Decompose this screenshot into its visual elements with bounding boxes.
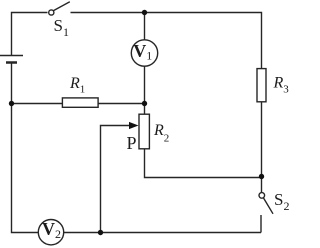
node E junction dot xyxy=(98,230,103,235)
battery B1 short plate (-) xyxy=(6,61,17,64)
rheostat R2 wiper wire xyxy=(101,126,130,233)
voltmeter V2 xyxy=(38,220,63,245)
voltmeter V1 xyxy=(131,40,157,66)
switch S2 xyxy=(259,193,273,233)
wire R2 bottom to node D xyxy=(145,149,262,177)
svg-text:P: P xyxy=(127,133,137,153)
wire R1 to node C xyxy=(99,103,145,105)
wire R3 to node D xyxy=(261,102,263,176)
wire top-left: battery + to S1 xyxy=(12,13,48,56)
wire node D to S2 xyxy=(261,176,263,192)
wire node B to bottom-left corner to V2 xyxy=(12,104,39,233)
node B junction dot xyxy=(9,101,14,106)
wire node B to R1 xyxy=(11,103,62,105)
resistor R1 xyxy=(62,98,98,107)
wire node C to R2 top xyxy=(144,104,146,115)
rheostat R2 body xyxy=(139,114,149,149)
wire V2 to node E and S2 xyxy=(64,232,261,234)
rheostat R2 wiper arrowhead xyxy=(129,122,139,129)
node A junction dot xyxy=(142,10,147,15)
wire node A to top-right corner down to R3 xyxy=(144,13,262,69)
node D junction dot xyxy=(259,174,264,179)
switch S1 xyxy=(49,2,70,15)
wire battery - down left side to node B xyxy=(11,64,13,104)
battery B1 long plate (+) xyxy=(0,55,23,57)
wire S1 to node A xyxy=(71,12,145,14)
node C junction dot xyxy=(142,101,147,106)
wire node A down to V1 xyxy=(144,13,146,41)
resistor R3 xyxy=(257,69,266,102)
wire V1 to node C xyxy=(144,66,146,103)
